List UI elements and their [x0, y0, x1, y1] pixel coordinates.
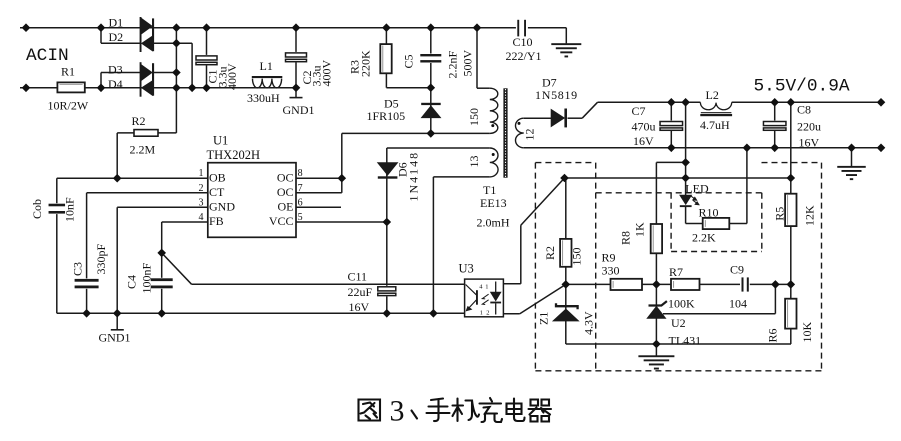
- svg-text:2: 2: [486, 309, 489, 316]
- svg-text:400V: 400V: [225, 63, 239, 90]
- dashed box: feedback network outline: [535, 162, 593, 164]
- wire: diagonal D7 to output rail: [582, 102, 597, 118]
- svg-text:10nF: 10nF: [63, 197, 77, 222]
- svg-text:Z1: Z1: [537, 312, 551, 325]
- wire: AC bottom rail: [20, 87, 296, 89]
- wire: pin3 drop to GND1 rail: [116, 207, 118, 313]
- resistor R10 body: [703, 218, 730, 229]
- wire: pin7 OC line: [296, 192, 342, 194]
- svg-text:C10: C10: [513, 35, 533, 49]
- capacitor C2 plates: [285, 52, 308, 63]
- svg-text:330: 330: [602, 264, 620, 278]
- svg-text:2.2nF: 2.2nF: [446, 51, 460, 79]
- LED indicator: [680, 195, 691, 204]
- svg-text:4: 4: [199, 212, 204, 223]
- svg-text:10K: 10K: [800, 322, 814, 343]
- resistor R9 body: [611, 279, 643, 290]
- wire: GND1 rail: [57, 312, 465, 314]
- svg-text:22uF: 22uF: [348, 285, 373, 299]
- wire: 150-ohm/zener vertical string: [565, 178, 567, 344]
- svg-text:OE: OE: [278, 199, 294, 213]
- svg-text:D4: D4: [108, 77, 123, 91]
- ground symbol under U2: [638, 355, 674, 357]
- svg-text:2.2K: 2.2K: [692, 231, 716, 245]
- capacitor C3 plates: [75, 278, 99, 288]
- svg-text:R7: R7: [669, 265, 683, 279]
- dashed divider inside feedback box: [595, 163, 597, 371]
- svg-text:500V: 500V: [461, 50, 475, 77]
- wire: vertical x=192 to bottom rail: [191, 43, 193, 88]
- ground symbol right of output: [837, 166, 866, 168]
- wire: drain row to primary bottom: [342, 132, 490, 134]
- svg-text:1FR105: 1FR105: [367, 109, 406, 123]
- resistor R6 body: [785, 299, 796, 329]
- inductor L1: [253, 79, 282, 88]
- wire: pin1 OB line: [57, 177, 208, 179]
- svg-text:GND1: GND1: [283, 103, 315, 117]
- svg-text:LED: LED: [685, 181, 709, 195]
- wire: U2 vertical string: [655, 284, 657, 344]
- wire: primary top drop from rail: [476, 28, 478, 88]
- svg-text:C11: C11: [348, 270, 368, 284]
- capacitor C11 plates: [377, 286, 397, 297]
- svg-text:C7: C7: [632, 104, 646, 118]
- svg-text:6: 6: [298, 197, 303, 208]
- svg-text:1N5819: 1N5819: [535, 88, 578, 102]
- wire: R10 riser to ground rail: [746, 148, 748, 224]
- wire: D5 vertical: [430, 88, 432, 134]
- wire: zener bottom line y=344: [566, 343, 791, 345]
- U3 internal LED: [495, 282, 497, 293]
- svg-text:R2: R2: [132, 114, 146, 128]
- resistor R8 body: [651, 224, 662, 253]
- transformer T1 core: [503, 88, 507, 177]
- wire: output rail left of L2: [598, 101, 701, 103]
- wire: Cob vertical string: [56, 178, 58, 313]
- svg-text:VCC: VCC: [269, 214, 294, 228]
- wire: R3 vertical string: [385, 28, 387, 88]
- wire: ref riser: [774, 284, 776, 313]
- junction dot clamp node: [427, 84, 434, 91]
- junction dots secondary ground rail: [668, 144, 675, 151]
- capacitor C5 plates: [420, 54, 441, 64]
- svg-text:L1: L1: [260, 59, 273, 73]
- svg-text:8: 8: [298, 168, 303, 179]
- wire: D6/C11 vertical string: [386, 148, 388, 313]
- capacitor C8 plates: [762, 121, 787, 132]
- secondary polarity dot: [518, 122, 521, 125]
- caption: figure 3 mobile phone charger (drawn glyphs): [359, 398, 552, 422]
- svg-text:104: 104: [729, 297, 747, 311]
- wire: C5 vertical: [430, 28, 432, 88]
- wire: D2 row right: [153, 42, 192, 44]
- junction dot R2/pin1: [114, 175, 121, 182]
- wire: clamp node link R3-C5: [386, 87, 430, 89]
- wire: LED feed vertical x=685.6: [685, 102, 687, 195]
- wire: R6 vertical string: [790, 284, 792, 344]
- svg-text:4.7uH: 4.7uH: [700, 118, 730, 132]
- svg-text:OC: OC: [277, 170, 294, 184]
- transformer T1 secondary winding 12: [516, 118, 524, 148]
- svg-text:GND1: GND1: [99, 331, 131, 345]
- svg-text:220K: 220K: [359, 50, 373, 77]
- svg-text:16V: 16V: [349, 300, 370, 314]
- optocoupler U3 box: [465, 279, 504, 317]
- junction dots bridge: [173, 40, 180, 47]
- svg-text:FB: FB: [209, 214, 224, 228]
- wire: GND1 stub under C2: [295, 88, 297, 97]
- capacitor C1 plates: [195, 55, 218, 66]
- wire: aux winding bottom line: [433, 176, 489, 178]
- U3 photon arrows: [482, 294, 488, 304]
- svg-text:100nF: 100nF: [140, 263, 154, 294]
- svg-text:16V: 16V: [799, 135, 820, 149]
- svg-text:100K: 100K: [668, 297, 695, 311]
- aux polarity dot: [492, 153, 495, 156]
- svg-text:1: 1: [480, 309, 483, 316]
- svg-text:12K: 12K: [803, 205, 817, 226]
- wire: C3 vertical string: [86, 193, 88, 313]
- junction dots GND1 rail: [83, 310, 90, 317]
- svg-text:C8: C8: [797, 103, 811, 117]
- wire: D2 anode row left: [101, 42, 141, 44]
- wire: C1 vertical: [206, 28, 208, 88]
- ground symbol after C10: [551, 43, 581, 45]
- wire: C7 vertical: [670, 102, 672, 148]
- primary polarity dot: [491, 124, 494, 127]
- svg-text:470u: 470u: [632, 119, 656, 133]
- svg-text:150: 150: [570, 248, 584, 266]
- wire: GND1 stub marker: [116, 313, 118, 329]
- svg-text:7: 7: [298, 183, 303, 194]
- wire: aux winding top line to D6: [387, 147, 490, 149]
- junction dots top rail: [22, 24, 29, 31]
- wire: output rail right of L2: [732, 101, 881, 103]
- svg-text:C3: C3: [71, 262, 85, 276]
- resistor R2 (150) body: [560, 239, 571, 267]
- wire: U2 ground stem: [655, 344, 657, 356]
- svg-text:THX202H: THX202H: [207, 148, 260, 162]
- svg-text:330pF: 330pF: [94, 244, 108, 275]
- wire: U3 pin1 stub right-top: [503, 283, 520, 285]
- transformer T1 aux winding 13: [490, 148, 498, 177]
- dashed box: LED indicator: [670, 193, 672, 252]
- wire: secondary ground rail: [524, 147, 881, 149]
- wire: top rail after C10: [526, 27, 567, 29]
- svg-text:16V: 16V: [633, 134, 654, 148]
- wire: C10 ground stem: [565, 28, 567, 44]
- svg-text:2: 2: [199, 183, 204, 194]
- svg-text:OC: OC: [277, 185, 294, 199]
- svg-text:2.2M: 2.2M: [130, 143, 156, 157]
- svg-text:C9: C9: [730, 263, 744, 277]
- shunt regulator U2 TL431: [649, 301, 667, 305]
- wire: U2 ref line: [663, 313, 775, 315]
- svg-text:GND: GND: [209, 199, 235, 213]
- bridge diode D1 D2 pair: [140, 17, 142, 52]
- svg-text:L2: L2: [706, 88, 719, 102]
- junction dot R8 top link: [682, 159, 689, 166]
- diode D7: [551, 110, 564, 127]
- wire: pin2 CT line: [87, 192, 208, 194]
- wire: diagonal U3 pin2 to zener node: [520, 284, 566, 313]
- capacitor Cob plates: [49, 203, 66, 214]
- svg-text:U2: U2: [671, 316, 686, 330]
- resistor R1: [57, 82, 84, 92]
- svg-text:R10: R10: [699, 206, 719, 220]
- svg-text:ACIN: ACIN: [26, 46, 69, 66]
- svg-text:220u: 220u: [797, 120, 821, 134]
- svg-text:T1: T1: [483, 183, 496, 197]
- wire: pin4 FB line: [162, 221, 208, 223]
- svg-text:3: 3: [390, 395, 405, 428]
- svg-text:U1: U1: [213, 133, 228, 147]
- svg-text:R1: R1: [61, 65, 75, 79]
- U3 phototransistor: [476, 290, 478, 305]
- svg-text:400V: 400V: [320, 60, 334, 87]
- svg-text:330uH: 330uH: [247, 91, 280, 105]
- svg-text:3: 3: [199, 197, 204, 208]
- resistor R2: [134, 130, 158, 137]
- wire: node line y=178: [565, 177, 791, 179]
- svg-text:1: 1: [199, 168, 204, 179]
- junction dot drain node: [427, 130, 434, 137]
- resistor R7 body: [671, 279, 700, 290]
- svg-text:1: 1: [485, 283, 488, 290]
- wire: pin3 GND line: [117, 206, 208, 208]
- bridge diode D3 D4 pair: [140, 62, 142, 96]
- svg-text:R9: R9: [602, 251, 616, 265]
- svg-text:U3: U3: [459, 261, 474, 275]
- svg-text:TL431: TL431: [669, 334, 702, 348]
- diode D6: [378, 163, 398, 175]
- wire: R2 drop to pin1 line: [116, 133, 118, 178]
- capacitor C10: [516, 19, 528, 38]
- wire: OC vertical x=342: [341, 133, 343, 192]
- wire: R2 left lead: [117, 132, 134, 134]
- transformer T1 primary winding 150: [490, 88, 498, 133]
- wire: FB diagonal to optocoupler: [162, 253, 192, 284]
- wire: D3 row right: [154, 72, 177, 74]
- svg-text:R2: R2: [543, 246, 557, 260]
- svg-text:D2: D2: [109, 30, 124, 44]
- wire: diagonal riser to 178 line: [521, 178, 565, 225]
- svg-text:222/Y1: 222/Y1: [506, 49, 542, 63]
- wire: LED cathode drop: [685, 206, 687, 224]
- svg-text:12: 12: [523, 129, 537, 141]
- svg-text:R5: R5: [773, 207, 787, 221]
- svg-text:C4: C4: [125, 275, 139, 289]
- capacitor C9: [740, 277, 750, 293]
- wire: right ground stem: [851, 148, 853, 166]
- wire: D2 branch drop from top rail: [100, 28, 102, 44]
- resistor R3 body: [380, 44, 391, 73]
- junction dots bottom rail: [22, 84, 29, 91]
- svg-text:1K: 1K: [633, 222, 647, 237]
- wire: U3 pin2 stub right-bottom: [503, 313, 519, 315]
- junction dot FB node: [158, 249, 165, 256]
- wire: pin5 VCC line: [296, 221, 387, 223]
- svg-text:5.5V/0.9A: 5.5V/0.9A: [754, 77, 850, 97]
- svg-text:R8: R8: [619, 231, 633, 245]
- junction dots feedback row: [562, 281, 569, 288]
- svg-text:D3: D3: [108, 62, 123, 76]
- wire: aux return vertical x=433: [432, 177, 434, 313]
- svg-text:EE13: EE13: [480, 196, 507, 210]
- junction dot U2 ground: [653, 340, 660, 347]
- wire: D7 cathode lead: [568, 117, 583, 119]
- zener diode Z1 4.3V: [556, 303, 578, 309]
- svg-text:CT: CT: [209, 185, 225, 199]
- svg-text:Cob: Cob: [30, 199, 44, 219]
- svg-text:D1: D1: [109, 16, 124, 30]
- capacitor C7 plates: [659, 121, 684, 132]
- wire: D3 row left: [101, 72, 141, 74]
- svg-text:5: 5: [298, 212, 303, 223]
- resistor R5 body: [785, 194, 796, 226]
- wire: C2 vertical: [295, 28, 297, 88]
- svg-text:4.3V: 4.3V: [582, 311, 596, 335]
- wire: feedback row y=284.4: [566, 283, 791, 285]
- wire: bridge output vertical x=176: [175, 28, 177, 133]
- wire: R2 right lead: [158, 132, 176, 134]
- svg-text:13: 13: [467, 156, 481, 168]
- wire: AC top rail: [20, 27, 517, 29]
- junction dots node line y=178: [561, 174, 568, 181]
- svg-text:OB: OB: [209, 170, 226, 184]
- wire: D3 branch rise from bottom rail: [100, 73, 102, 88]
- wire: pin6 OE stub: [296, 206, 341, 208]
- wire: pin8 OC line: [296, 177, 342, 179]
- wire: C8 vertical: [774, 102, 776, 148]
- diode D5: [421, 103, 441, 105]
- svg-text:R6: R6: [766, 328, 780, 342]
- inductor L2: [700, 102, 731, 109]
- svg-text:1N4148: 1N4148: [407, 151, 421, 202]
- junction dot pin8/OC: [338, 175, 345, 182]
- svg-text:150: 150: [467, 108, 481, 126]
- wire: R8 vertical string: [655, 162, 657, 284]
- capacitor C4 plates: [151, 278, 173, 289]
- wire: U3 pin1 vertical riser: [520, 225, 522, 284]
- dashed horizontal y=192.8: [596, 192, 762, 194]
- wire: R5 vertical string: [790, 102, 792, 284]
- wire: R8 top link: [656, 161, 685, 163]
- wire: secondary top lead to D7: [524, 117, 552, 119]
- wire: FB/C4 vertical string: [161, 222, 163, 313]
- junction dot VCC/D6: [383, 218, 390, 225]
- svg-text:2.0mH: 2.0mH: [477, 216, 510, 230]
- wire: FB horizontal to U3: [192, 283, 465, 285]
- svg-text:10R/2W: 10R/2W: [48, 99, 89, 113]
- wire: R10 right lead: [729, 223, 747, 225]
- wire: LED to R10 link: [686, 223, 703, 225]
- svg-text:C5: C5: [402, 54, 416, 68]
- junction dots output rail: [668, 99, 675, 106]
- IC U1 THX202H box: [208, 163, 296, 238]
